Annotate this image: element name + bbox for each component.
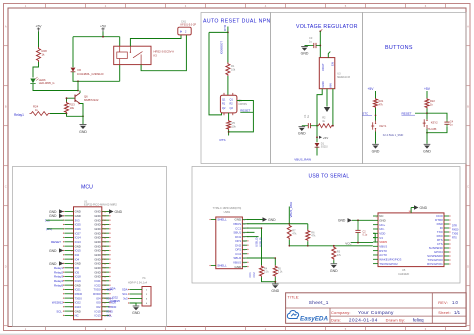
junction <box>82 115 84 117</box>
wire <box>375 132 377 144</box>
svg-text:19: 19 <box>70 289 72 291</box>
svg-text:Relay1: Relay1 <box>14 113 24 117</box>
svg-text:12: 12 <box>70 259 72 261</box>
svg-text:SCL: SCL <box>122 292 128 296</box>
svg-text:U5: U5 <box>402 268 406 272</box>
wire <box>77 81 79 90</box>
wire <box>316 126 318 143</box>
capacitor C4 <box>444 119 453 127</box>
svg-text:SS210: SS210 <box>321 147 329 149</box>
ground (R3) <box>330 264 338 273</box>
ground flag (U1 pin2) <box>49 214 64 219</box>
svg-text:RXS/GPIO1: RXS/GPIO1 <box>427 262 443 266</box>
svg-text:DTR: DTR <box>223 24 227 31</box>
net label SCL2 <box>107 314 113 318</box>
svg-text:felixq: felixq <box>413 318 424 323</box>
svg-text:8: 8 <box>72 242 73 244</box>
svg-text:10k: 10k <box>231 67 236 71</box>
net label TXD0 <box>109 301 117 305</box>
wire USB GND <box>247 219 263 221</box>
section box MCU <box>13 167 167 327</box>
dual transistor Q1 UMH3N <box>220 93 247 115</box>
wire <box>319 31 321 57</box>
section title AUTO RESET <box>203 18 271 24</box>
ground (KEY1) <box>372 144 380 153</box>
junction <box>288 223 290 225</box>
wire VOUT2 pin <box>317 89 322 126</box>
svg-text:MCU: MCU <box>81 184 93 190</box>
junction <box>316 136 318 138</box>
svg-text:VOLTAGE REGULATOR: VOLTAGE REGULATOR <box>296 24 358 30</box>
wire <box>73 72 120 81</box>
net label Relay2 <box>54 270 63 274</box>
section box AUTO RESET DUAL NPN <box>201 13 271 164</box>
net label SDA (H1) <box>122 288 128 292</box>
svg-text:13: 13 <box>70 263 72 265</box>
wire U5 gnd <box>352 219 373 221</box>
wire <box>375 91 377 98</box>
wire <box>50 113 67 115</box>
net label SDA (U1) <box>107 288 113 292</box>
svg-text:CC2: CC2 <box>252 272 256 278</box>
svg-text:A11: A11 <box>243 240 246 243</box>
wire CC1 <box>247 228 262 265</box>
junction <box>77 80 79 82</box>
wire <box>316 147 318 155</box>
junction <box>77 90 79 92</box>
svg-text:TXD0: TXD0 <box>452 233 459 236</box>
svg-text:24: 24 <box>70 311 72 313</box>
svg-text:+5V: +5V <box>100 24 107 28</box>
ground (U3 arrow) <box>324 107 330 112</box>
svg-text:Relay5: Relay5 <box>54 283 63 287</box>
svg-text:B: B <box>5 105 7 109</box>
resistor R24 <box>30 105 51 116</box>
wire cap branch <box>427 113 447 119</box>
ground (C3) <box>301 47 309 56</box>
wire collector <box>79 91 81 94</box>
wire R6R7 node <box>289 223 308 225</box>
net label +5V (KEY1) <box>368 87 375 91</box>
wire U5 top gnd <box>411 208 414 213</box>
svg-text:VIN: VIN <box>329 83 333 88</box>
svg-text:B: B <box>467 105 469 109</box>
svg-text:0.1u: 0.1u <box>363 233 368 236</box>
junction <box>66 113 68 115</box>
resistor R28 <box>37 47 48 62</box>
svg-text:GND: GND <box>115 210 123 214</box>
junction <box>316 125 334 127</box>
svg-text:17: 17 <box>70 281 72 283</box>
title block REV <box>438 300 458 305</box>
resistor R4 <box>260 265 270 277</box>
net label STC <box>362 112 372 116</box>
button KEY1 <box>371 121 387 132</box>
junction <box>426 132 428 134</box>
svg-text:K3: K3 <box>154 54 158 58</box>
net label USB_D+ (usb) <box>254 236 258 247</box>
net labels near H1 <box>110 287 120 304</box>
svg-text:3: 3 <box>72 220 73 222</box>
ground (C1) <box>298 127 306 136</box>
svg-text:18: 18 <box>70 285 72 287</box>
svg-text:GND: GND <box>79 130 87 134</box>
svg-text:Company:: Company: <box>331 310 351 315</box>
net label CC2 (vert) <box>252 272 256 278</box>
svg-text:SHELL: SHELL <box>217 264 227 268</box>
svg-text:TS-1088: TS-1088 <box>428 129 438 131</box>
net label EN (U1) <box>46 227 63 231</box>
resistor R3 <box>332 246 342 260</box>
section title MCU <box>81 184 93 190</box>
net label RESET (btn) <box>402 111 416 115</box>
svg-text:3v3: 3v3 <box>123 297 128 301</box>
svg-text:1.0: 1.0 <box>452 300 458 305</box>
svg-text:B11: B11 <box>243 267 246 269</box>
svg-text:LED-0805_G: LED-0805_G <box>39 81 55 85</box>
svg-text:VBUS_RAW: VBUS_RAW <box>294 157 311 161</box>
svg-text:A3: A3 <box>243 223 245 226</box>
svg-text:TYPE-C 16PIN 2MD(073): TYPE-C 16PIN 2MD(073) <box>213 207 242 210</box>
LED LED6 <box>30 77 54 85</box>
junction <box>426 112 428 114</box>
net label IO34 <box>107 296 114 300</box>
part labels USB1 <box>213 207 242 214</box>
junction <box>227 32 229 34</box>
net label Relay4 <box>54 279 63 283</box>
svg-text:SDA: SDA <box>110 287 116 291</box>
svg-text:GND: GND <box>330 269 338 273</box>
diode D6 <box>71 68 104 77</box>
resistor R22 <box>425 98 435 109</box>
svg-text:RESET: RESET <box>402 111 412 115</box>
net label 3v3 (H1) <box>123 297 128 301</box>
svg-text:10k: 10k <box>70 106 75 110</box>
svg-text:GND: GND <box>49 214 57 218</box>
svg-text:GND: GND <box>321 81 325 87</box>
svg-text:REV:: REV: <box>438 301 448 305</box>
regulator U3 <box>319 58 350 89</box>
title block Date <box>331 318 424 323</box>
svg-text:1N4148WL_C2909120: 1N4148WL_C2909120 <box>77 72 104 76</box>
svg-text:GND: GND <box>268 218 276 222</box>
wire <box>67 114 84 117</box>
svg-text:STC: STC <box>362 112 369 116</box>
svg-text:SCL: SCL <box>56 309 62 313</box>
svg-text:AUTO RESET DUAL NPN: AUTO RESET DUAL NPN <box>203 18 271 24</box>
net label USB_D- (usb) <box>259 237 263 247</box>
wire <box>426 129 428 144</box>
svg-text:Date:: Date: <box>331 318 342 323</box>
junction <box>274 281 276 283</box>
svg-text:WS2812: WS2812 <box>52 301 63 305</box>
svg-text:11: 11 <box>71 255 73 257</box>
svg-text:GND: GND <box>338 219 346 223</box>
ground (KEY2) <box>423 144 431 153</box>
net label Relay3 <box>54 275 63 279</box>
junction <box>228 131 230 133</box>
junction <box>261 227 276 259</box>
svg-text:10k: 10k <box>232 124 237 128</box>
ground flag (U1 right) <box>109 209 123 214</box>
svg-text:47k: 47k <box>379 102 384 106</box>
ground flag (U1 pin1) <box>49 209 64 214</box>
junction <box>319 45 321 47</box>
svg-text:7: 7 <box>72 237 73 239</box>
svg-text:EasyEDA: EasyEDA <box>300 315 328 322</box>
title block Company <box>331 310 394 316</box>
svg-text:D6: D6 <box>78 68 82 72</box>
svg-text:NC: NC <box>75 314 79 318</box>
wire VBUS <box>247 223 289 225</box>
wire R4R5 gnd <box>262 277 276 283</box>
svg-text:GND: GND <box>271 289 279 293</box>
logo EasyEDA <box>287 311 328 323</box>
wire loop right <box>229 101 254 132</box>
ground flag (U1) <box>49 261 64 266</box>
IC U1 ESP32-PICO-MINI <box>63 207 111 320</box>
resistor R7 <box>287 224 297 240</box>
wire DN1 <box>247 236 259 238</box>
svg-text:RXD0: RXD0 <box>452 229 459 232</box>
svg-text:+5V: +5V <box>323 136 328 140</box>
junction <box>289 245 335 247</box>
button KEY2 <box>423 119 438 131</box>
net label Relay5 <box>54 283 63 287</box>
wire <box>73 36 120 38</box>
svg-text:BUTTONS: BUTTONS <box>385 45 413 51</box>
svg-text:B3: B3 <box>243 249 245 251</box>
ground (Q6 emitter) <box>79 125 87 134</box>
relay K3 <box>114 46 174 64</box>
title block TITLE <box>288 295 329 305</box>
wire DP1 <box>247 231 255 233</box>
svg-text:22: 22 <box>70 302 72 304</box>
svg-text:15: 15 <box>70 272 72 274</box>
svg-text:D: D <box>467 265 469 269</box>
svg-text:IO0/BOOT: IO0/BOOT <box>219 41 223 55</box>
svg-text:2: 2 <box>72 216 73 218</box>
svg-text:IO13: IO13 <box>95 314 102 318</box>
title block frame <box>286 293 467 324</box>
svg-text:SCL: SCL <box>107 314 113 318</box>
svg-text:GND: GND <box>298 132 306 136</box>
net flag VCC <box>345 241 373 245</box>
net label +5V (KEY2) <box>424 87 431 91</box>
resistor R23 <box>65 102 76 114</box>
net label SCL <box>56 309 62 313</box>
wire H1 GND <box>130 303 137 306</box>
svg-text:KF301-5.0-2P: KF301-5.0-2P <box>181 24 197 27</box>
svg-text:UMH3N: UMH3N <box>238 103 247 106</box>
net label RXD0 <box>109 305 117 309</box>
pin label top <box>409 211 412 213</box>
net label IO0 <box>219 41 223 55</box>
connector H1 HDR-P-2.54_1x4 <box>128 287 151 307</box>
section title USB TO SERIAL <box>309 173 350 179</box>
wire <box>72 37 74 68</box>
net label right1 <box>452 225 457 228</box>
net label VBUS_RAW <box>294 157 317 161</box>
svg-text:TITLE:: TITLE: <box>288 295 300 299</box>
svg-text:Your Company: Your Company <box>358 310 394 316</box>
ground flag (U1) <box>49 248 64 253</box>
svg-text:B5: B5 <box>243 254 245 256</box>
svg-text:A: A <box>467 25 469 29</box>
svg-text:D: D <box>5 265 7 269</box>
svg-text:A1: A1 <box>243 219 245 222</box>
svg-text:GND: GND <box>235 265 243 269</box>
wire <box>33 84 78 91</box>
svg-text:Sheet_1: Sheet_1 <box>309 300 329 305</box>
power +5V flag (relay) <box>100 24 107 31</box>
svg-text:USB TO SERIAL: USB TO SERIAL <box>309 173 350 179</box>
wire EN stub <box>328 52 330 58</box>
svg-text:A: A <box>5 25 7 29</box>
svg-text:+5V: +5V <box>36 24 43 28</box>
svg-text:1/1: 1/1 <box>454 310 461 315</box>
wire CC2 <box>247 258 275 265</box>
net label IO35 <box>107 309 114 313</box>
wire vdd jog <box>373 233 375 242</box>
svg-text:5.1k: 5.1k <box>278 271 283 274</box>
section box VOLTAGE REGULATOR <box>271 13 363 164</box>
svg-text:10: 10 <box>70 250 72 252</box>
svg-text:GND: GND <box>372 149 380 153</box>
svg-text:CH9102F: CH9102F <box>398 272 410 276</box>
title block Sheet <box>438 310 460 315</box>
svg-text:USB1: USB1 <box>224 211 231 214</box>
net label right2 <box>452 229 459 232</box>
wire <box>426 109 428 120</box>
resistor R6 <box>306 230 316 242</box>
section title VOLTAGE REGULATOR <box>296 24 358 30</box>
svg-text:5.1k: 5.1k <box>264 271 269 274</box>
svg-text:23: 23 <box>70 307 72 309</box>
svg-text:MMBT2222: MMBT2222 <box>84 98 99 102</box>
resistor R21 <box>374 98 384 108</box>
svg-text:VCC: VCC <box>345 241 352 245</box>
part labels U5 <box>398 268 410 276</box>
wire relay NO <box>130 35 181 46</box>
power flag +5V (vreg) <box>319 136 328 140</box>
svg-text:RTS: RTS <box>452 237 457 240</box>
resistor R1 <box>226 63 236 77</box>
wire VBUS_RAW up <box>288 207 290 224</box>
svg-text:+5V: +5V <box>368 87 375 91</box>
wire <box>427 127 447 133</box>
wire bottom bus <box>289 240 373 246</box>
svg-text:25: 25 <box>70 315 72 317</box>
junction <box>357 242 359 244</box>
wire <box>375 108 377 121</box>
section box USB TO SERIAL <box>192 167 460 284</box>
svg-text:GND: GND <box>423 149 431 153</box>
wire loop top <box>209 31 228 33</box>
svg-text:RESET: RESET <box>51 240 61 244</box>
wire <box>426 91 428 98</box>
svg-text:B7: B7 <box>243 258 245 260</box>
svg-text:RTS: RTS <box>220 138 226 142</box>
svg-text:VOUT: VOUT <box>321 63 325 71</box>
svg-text:16: 16 <box>70 276 72 278</box>
wire <box>228 130 230 136</box>
junction <box>357 219 359 221</box>
svg-text:CC1: CC1 <box>248 272 252 278</box>
net label RESET <box>240 109 253 113</box>
svg-text:A5: A5 <box>243 227 245 230</box>
svg-text:KEY1: KEY1 <box>380 124 387 128</box>
net label right3 <box>452 233 459 236</box>
svg-text:C: C <box>467 185 469 189</box>
net label CC1 (vert) <box>248 272 252 278</box>
wire <box>333 260 335 263</box>
wire R6 top <box>307 224 309 230</box>
svg-text:SDA: SDA <box>122 288 128 292</box>
wire <box>102 32 104 37</box>
svg-text:GND: GND <box>132 311 140 315</box>
power +5V flag (LED branch) <box>36 24 43 31</box>
wire <box>415 112 427 114</box>
svg-text:USB_D+: USB_D+ <box>254 236 258 247</box>
part label KEY1 <box>383 133 404 137</box>
capacitor C3 <box>309 36 320 48</box>
net label DTR <box>223 24 227 31</box>
svg-text:4: 4 <box>72 224 73 226</box>
svg-text:TNOW/GPIO2: TNOW/GPIO2 <box>379 262 398 266</box>
net flag 3V3 top <box>319 29 322 32</box>
svg-text:Sheet:: Sheet: <box>438 310 451 315</box>
net label Relay1 <box>14 113 24 117</box>
junction <box>66 97 68 99</box>
wire GND pin <box>326 89 328 107</box>
svg-text:6: 6 <box>72 233 73 235</box>
ground (R4 R5) <box>271 284 279 293</box>
svg-text:HDR-P-2.54_1x4: HDR-P-2.54_1x4 <box>128 281 148 284</box>
connector USB1 TYPE-C <box>209 217 248 269</box>
net label VBUS_RAW (vert) <box>289 201 293 217</box>
svg-text:B1: B1 <box>243 245 245 247</box>
svg-text:B9: B9 <box>243 262 245 264</box>
svg-text:5: 5 <box>72 229 73 231</box>
svg-text:EN: EN <box>331 62 335 66</box>
resistor R5b <box>273 265 283 277</box>
net label 3v3 (U1) <box>45 218 64 222</box>
svg-text:K2-0.5HE 1_SMD: K2-0.5HE 1_SMD <box>383 133 404 137</box>
net label right4 <box>452 237 457 240</box>
svg-text:20: 20 <box>70 294 72 296</box>
transistor Q6 <box>75 93 99 104</box>
connector CN1 <box>178 21 197 35</box>
svg-text:ME6211C33: ME6211C33 <box>337 77 350 79</box>
capacitor C1 <box>302 114 317 128</box>
ground flag (U5 gnd) <box>338 218 352 223</box>
svg-text:21: 21 <box>70 298 72 300</box>
net label RESET (U1) <box>51 240 61 244</box>
wire loop left <box>209 32 222 115</box>
wire <box>119 37 121 47</box>
ground flag (U5 top) <box>414 205 428 210</box>
svg-text:ESP32-PICO-MINI-02-N8R2: ESP32-PICO-MINI-02-N8R2 <box>84 203 117 207</box>
svg-text:DTR: DTR <box>452 225 457 228</box>
wire <box>228 113 230 120</box>
svg-text:A7: A7 <box>243 231 245 234</box>
junction <box>102 36 104 38</box>
svg-text:IO32: IO32 <box>112 296 118 300</box>
wire VIN pin <box>332 89 334 126</box>
svg-text:GND: GND <box>301 51 309 55</box>
svg-text:9: 9 <box>72 246 73 248</box>
